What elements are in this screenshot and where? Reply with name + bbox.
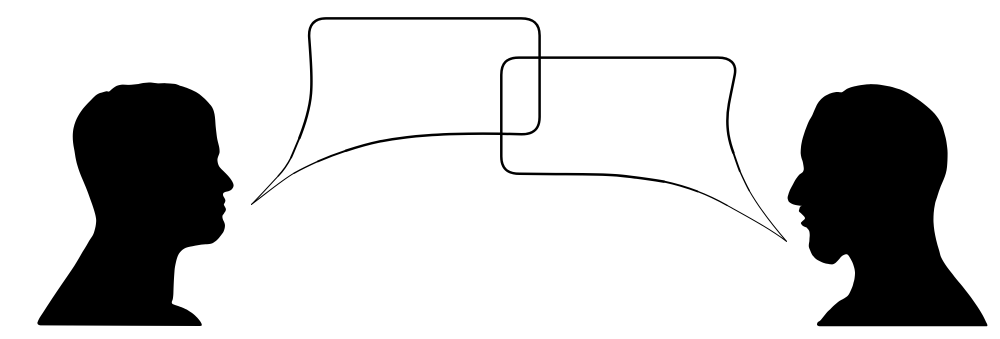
left speech bubble: tail bottom edge (tapering): [318, 151, 346, 162]
left head silhouette: [37, 83, 233, 327]
left speech bubble: main outline (rounded box part): [299, 18, 539, 150]
left speech bubble: tail left edge (tapering): [291, 138, 299, 158]
right speech bubble: tail right edge (tapering): [733, 153, 739, 171]
right head silhouette: [788, 84, 988, 326]
right speech bubble: main outline (rounded box part): [501, 58, 735, 182]
right speech bubble: tail bottom edge (tapering): [664, 182, 698, 192]
